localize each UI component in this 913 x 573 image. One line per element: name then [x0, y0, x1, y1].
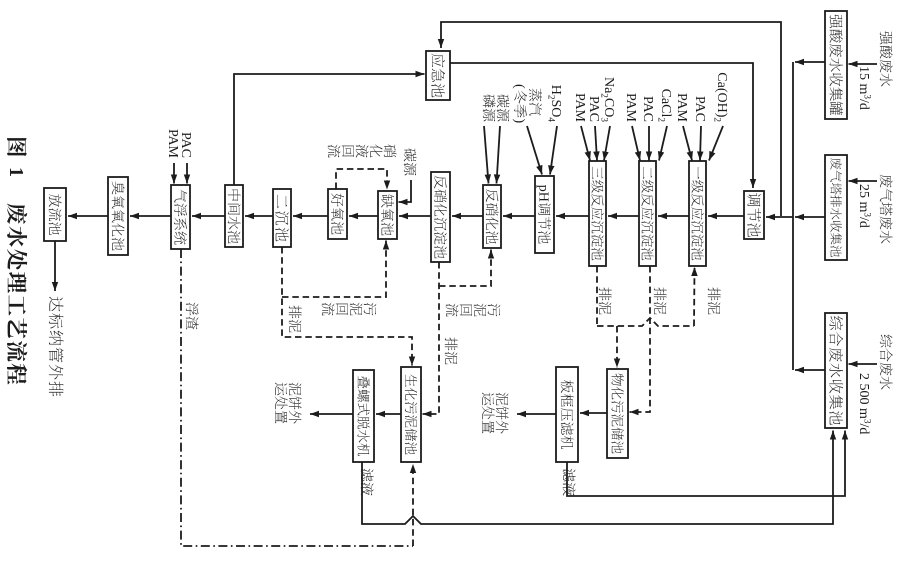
main flow connector 2: [658, 215, 689, 217]
arrow 板框压滤机 to 泥饼外运处置: [517, 413, 556, 415]
滤液 line from 叠螺式脱水机 with hop: [362, 431, 833, 525]
svg-text:1: 1: [5, 167, 27, 177]
chemicals for 反硝化池: 碳源 磷源: [497, 94, 510, 107]
label 泥饼外运处置 upper: [496, 393, 509, 406]
arrow 物化污泥储池 to 板框压滤机: [580, 412, 607, 414]
label 排泥: [445, 337, 458, 350]
tank 综合废水收集池: [825, 313, 847, 428]
滤液 line from 板框压滤机 to 综合废水收集池: [567, 431, 845, 497]
main flow connector 8: [349, 215, 378, 217]
svg-text:PAM: PAM: [623, 93, 638, 123]
arrow 碳源 into 缺氧池: [399, 180, 412, 202]
label 硝化液回流: [384, 144, 397, 157]
dashed 回流 branch to 反硝化池: [439, 250, 491, 287]
arrow feed3: [849, 363, 878, 365]
box 放流池: [44, 188, 66, 241]
label 排泥 三级: [599, 287, 612, 300]
box 板框压滤机: [556, 367, 578, 462]
svg-text:(: (: [512, 84, 527, 89]
main drop into 调节池: [766, 216, 793, 218]
drop from tank1: [795, 61, 825, 63]
dashed line 硝化液回流: [336, 169, 387, 190]
diversion line to 应急池: [441, 22, 781, 216]
dashed 排泥 from 二沉池: [282, 247, 412, 366]
drop from tank2: [795, 216, 825, 218]
label 达标纳管外排: [49, 297, 63, 312]
label 滤液 lower: [361, 469, 374, 482]
box 反硝化池: [483, 185, 501, 248]
box 二级反应沉淀池: [639, 161, 656, 266]
tank 强酸废水收集罐: [825, 11, 847, 119]
main flow connector 9: [293, 215, 328, 217]
dash-dot 浮渣 line from 气浮系统: [181, 249, 413, 546]
label 排泥 一级: [708, 287, 721, 300]
svg-text:Ca(OH)2: Ca(OH)2: [713, 72, 730, 122]
svg-text:pH: pH: [536, 185, 551, 202]
main flow connector 1: [708, 215, 744, 217]
dashed collector riser with hop: [597, 318, 694, 326]
label 泥饼外运处置 lower: [289, 383, 302, 396]
label 排泥 二沉池: [289, 305, 302, 318]
line 中间水池 to 应急池: [234, 74, 425, 185]
dashed branch into 物化污泥储池 left: [616, 326, 618, 368]
svg-text:): ): [512, 119, 527, 124]
main flow connector 5: [503, 215, 535, 217]
feed label 强酸废水 15 m3/d: [880, 31, 892, 44]
main flow connector 6: [452, 215, 483, 217]
dashed 排泥 line 反硝化沉淀池 to 生化污泥储池: [423, 262, 440, 414]
label 排泥 二级: [654, 287, 667, 300]
svg-text:PAM: PAM: [165, 129, 180, 159]
box 反硝化沉淀池: [431, 172, 450, 262]
svg-text:25 m3/d: 25 m3/d: [856, 184, 873, 228]
title 图1 废水处理工艺流程: [7, 138, 27, 156]
box 缺氧池: [378, 191, 397, 239]
feed label 废气塔废水 25 m3/d: [880, 175, 893, 188]
box 臭氧氧化池: [108, 177, 128, 255]
svg-text:H2SO4: H2SO4: [547, 85, 564, 123]
box 调节池: [744, 191, 764, 239]
arrow feed2: [849, 180, 878, 182]
svg-text:PAM: PAM: [572, 93, 587, 123]
dashed 排泥 from 二级反应沉淀池: [630, 266, 651, 412]
box 三级反应沉淀池: [589, 161, 606, 266]
box 好氧池: [328, 189, 347, 239]
label 污泥回流 vertical: [488, 304, 501, 317]
box 一级反应沉淀池: [689, 161, 706, 266]
box 中间水池: [225, 185, 243, 247]
tank 废气塔排水收集池: [825, 155, 847, 260]
svg-text:PAC: PAC: [692, 96, 707, 122]
dashed 排泥 from 三级反应沉淀池: [596, 266, 598, 326]
box 叠螺式脱水机: [353, 370, 374, 462]
box pH调节池: [535, 176, 554, 253]
dashed end into 生化污泥储池: [412, 464, 414, 546]
dashed link into 一级反应沉淀池: [693, 267, 696, 326]
main flow connector 7: [399, 215, 431, 217]
box 二沉池: [273, 189, 291, 247]
label 滤液 upper: [563, 469, 576, 482]
box 生化污泥储池: [401, 367, 421, 462]
arrow 蒸汽 into pH调节池: [527, 126, 542, 175]
main flow connector 3: [608, 215, 639, 217]
box 气浮系统: [171, 185, 190, 249]
return line 应急池 to 调节池: [450, 63, 753, 188]
svg-text:PAC: PAC: [586, 96, 601, 122]
arrow 叠螺式脱水机 to 泥饼外运处置: [310, 413, 353, 415]
main flow connector 4: [556, 215, 589, 217]
svg-text:CaCl2: CaCl2: [657, 89, 674, 123]
svg-text:PAC: PAC: [640, 96, 655, 122]
main flow connector 13: [68, 215, 108, 217]
outfall arrow 放流池 to 达标纳管外排: [54, 241, 56, 291]
collector line: [792, 62, 794, 370]
label 浮渣: [186, 303, 199, 316]
drop from tank3: [795, 369, 825, 371]
main flow connector 10: [245, 215, 273, 217]
svg-text:PAM: PAM: [674, 93, 689, 123]
feed label 综合废水 2500 m3/d: [880, 335, 893, 348]
dashed 污泥回流 branch to 缺氧池: [282, 241, 386, 298]
main flow connector 11: [192, 215, 225, 217]
arrow feed1: [849, 63, 878, 65]
box 物化污泥储池: [607, 369, 628, 458]
label 碳源 for 缺氧池: [404, 148, 417, 161]
svg-text:2 500 m3/d: 2 500 m3/d: [856, 373, 873, 434]
svg-text:15 m3/d: 15 m3/d: [856, 66, 873, 110]
tank 应急池: [426, 51, 450, 100]
main flow connector 12: [130, 215, 171, 217]
label 污泥回流 vertical 二沉池: [364, 303, 377, 316]
arrow 生化污泥储池 to 叠螺式脱水机: [376, 413, 401, 415]
